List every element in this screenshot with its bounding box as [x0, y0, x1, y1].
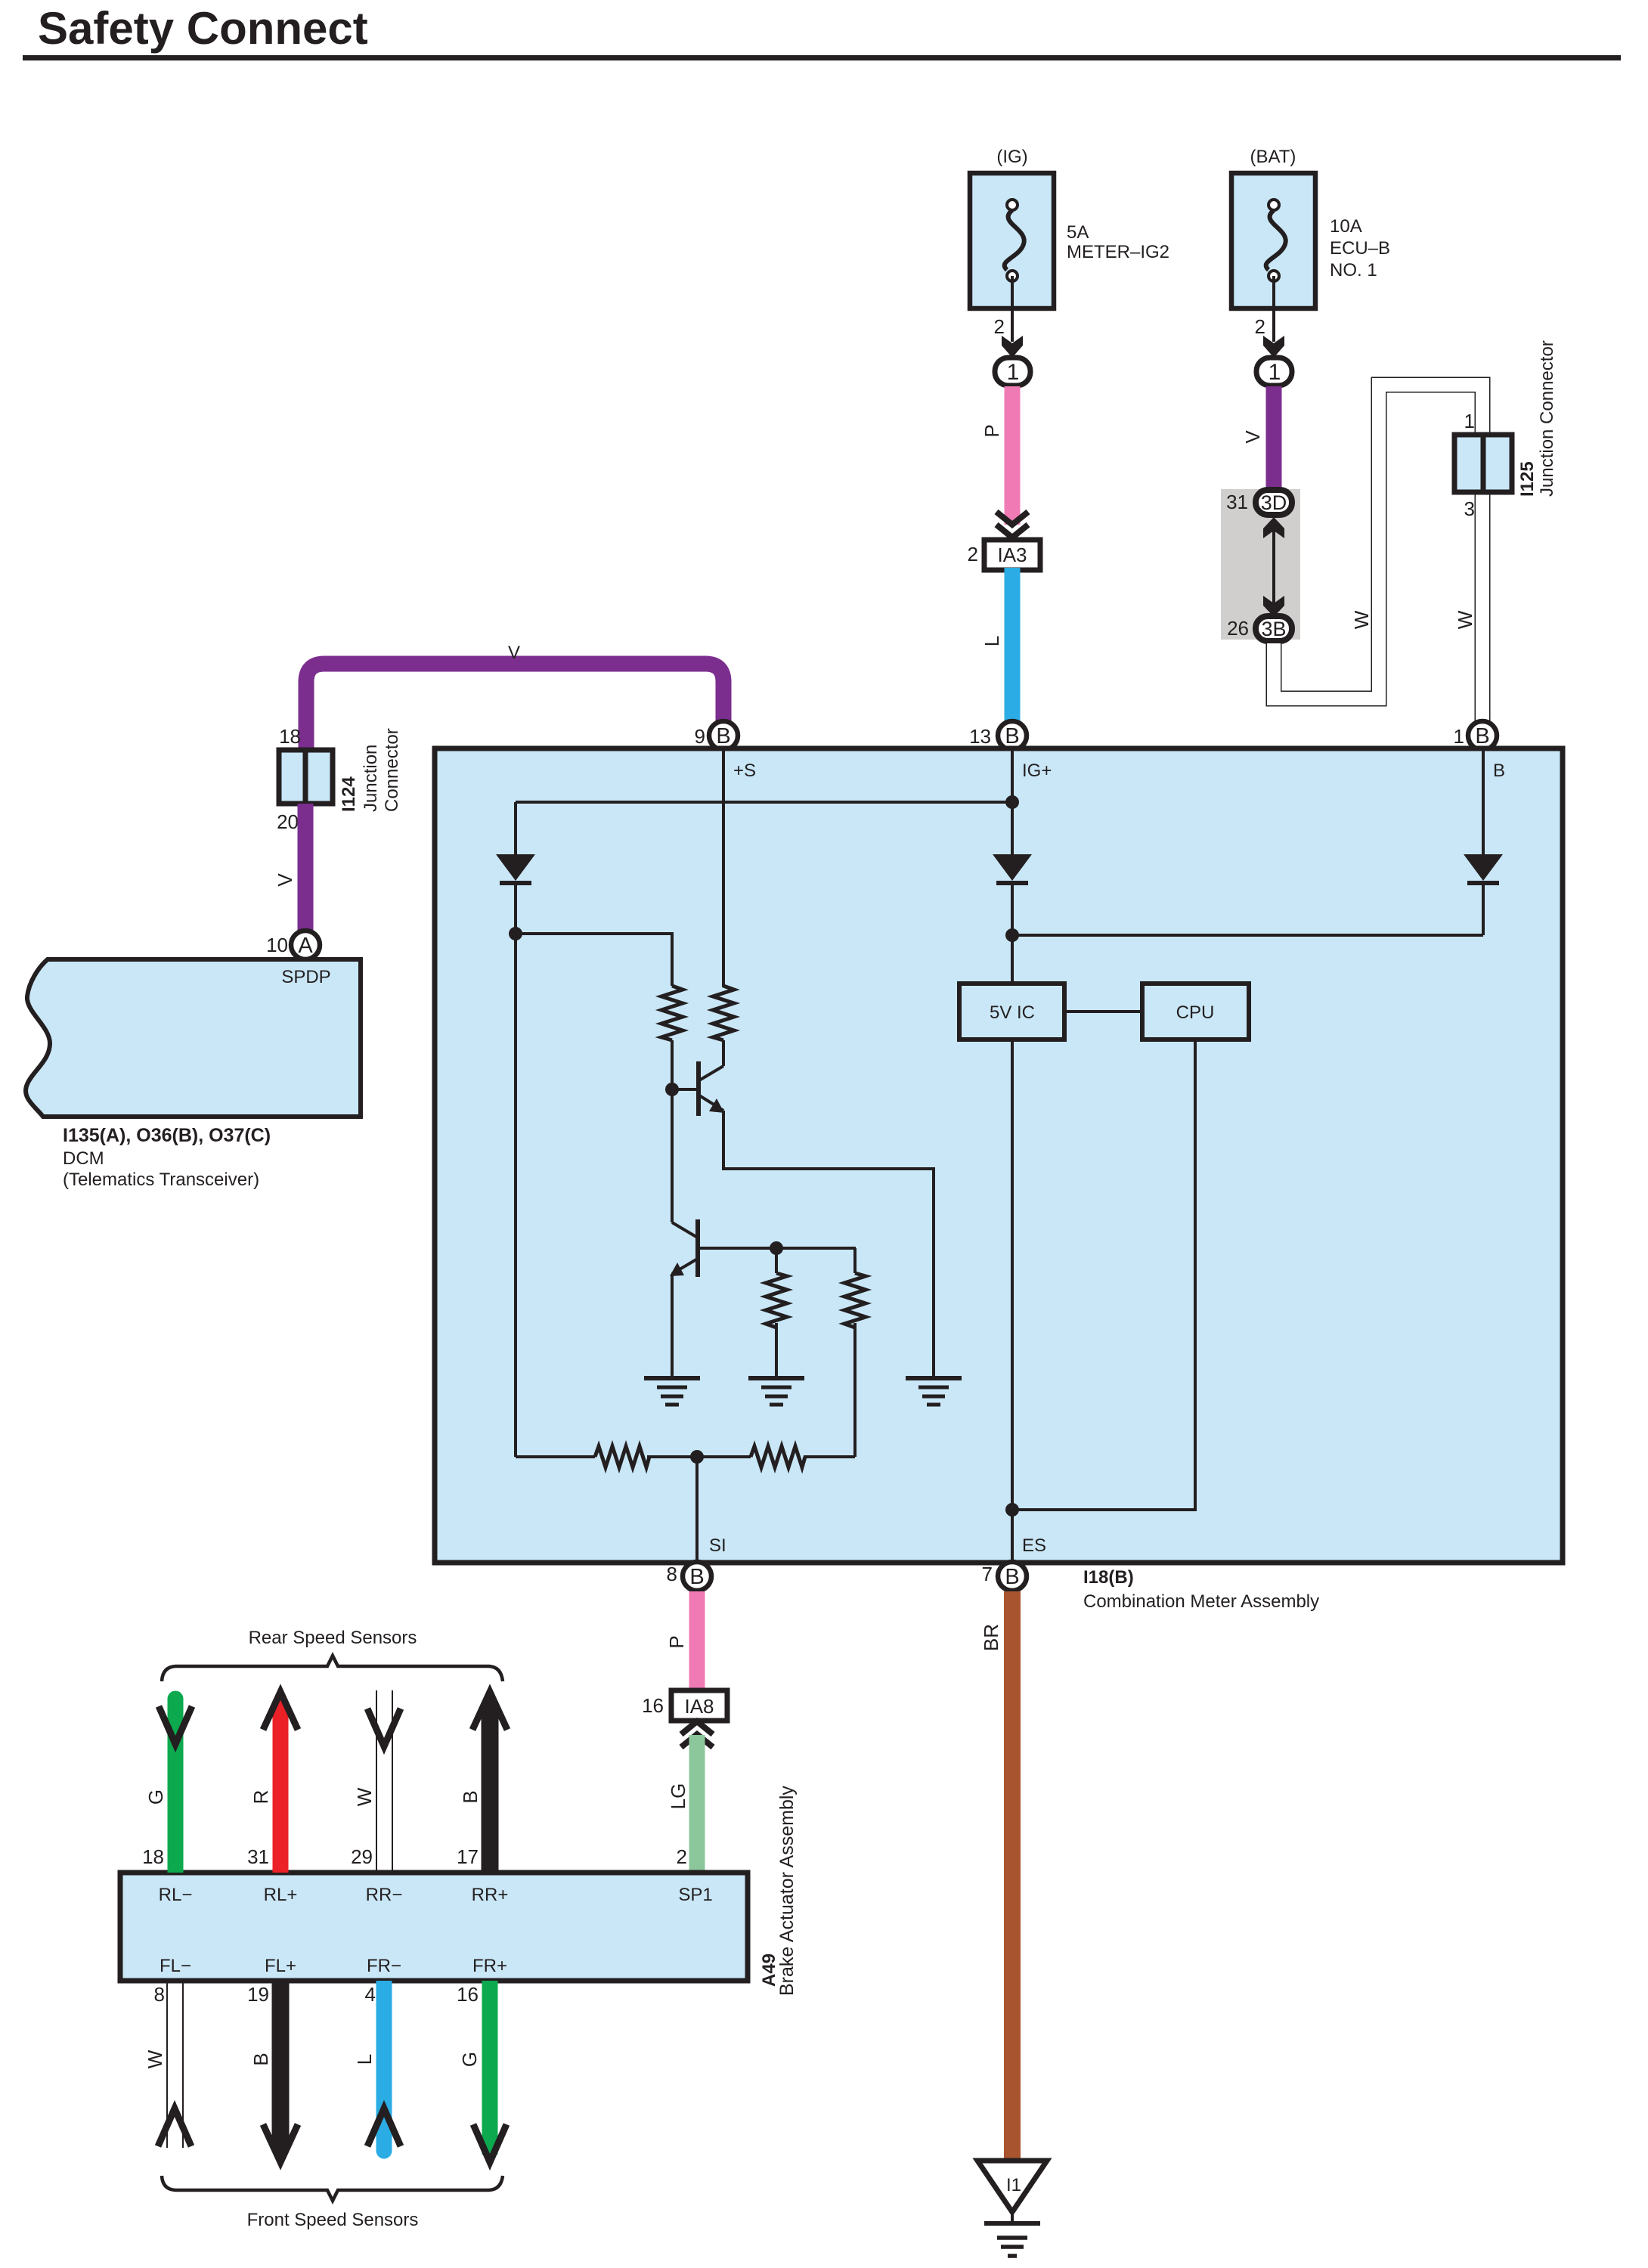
- junction connector I124: [277, 725, 402, 833]
- transistor Q1: [672, 1040, 724, 1116]
- svg-text:(IG): (IG): [996, 147, 1027, 167]
- fuse 10A ECU-B NO.1: [1231, 147, 1390, 308]
- svg-text:1: 1: [1454, 725, 1464, 748]
- svg-text:ES: ES: [1022, 1535, 1046, 1556]
- node dot ES: [1005, 1503, 1019, 1517]
- DCM caption: [63, 1125, 271, 1190]
- svg-text:R: R: [249, 1790, 272, 1805]
- svg-text:L: L: [980, 636, 1003, 646]
- svg-text:4: 4: [365, 1983, 376, 2006]
- wire 5V IC to CPU: [1064, 1010, 1142, 1013]
- svg-text:P: P: [980, 424, 1003, 437]
- connector IA8: [642, 1690, 727, 1721]
- terminal 10 A: [266, 931, 320, 959]
- transistor Q2: [670, 1089, 856, 1378]
- resistor R6: [751, 1446, 805, 1467]
- svg-text:B: B: [716, 724, 730, 748]
- wire W (RR-): [367, 1690, 401, 1873]
- svg-text:DCM: DCM: [63, 1148, 104, 1169]
- svg-text:3B: 3B: [1261, 618, 1286, 640]
- svg-text:RR−: RR−: [366, 1885, 403, 1905]
- svg-text:31: 31: [247, 1845, 269, 1868]
- junction connector I125: [1454, 340, 1557, 520]
- node dot R3 top: [770, 1241, 783, 1255]
- terminal 13 B: [969, 721, 1027, 750]
- connector IA3: [968, 540, 1040, 570]
- svg-text:Rear Speed Sensors: Rear Speed Sensors: [249, 1628, 417, 1648]
- diode D1: [496, 802, 535, 934]
- ground I1: [977, 2161, 1047, 2256]
- svg-text:LG: LG: [667, 1783, 689, 1810]
- svg-text:A: A: [298, 934, 313, 958]
- svg-text:NO. 1: NO. 1: [1330, 260, 1377, 280]
- wire R5 to R6: [647, 1455, 751, 1458]
- svg-text:5V IC: 5V IC: [990, 1002, 1035, 1023]
- fuse 5A METER-IG2: [970, 147, 1169, 308]
- resistor R1: [661, 986, 683, 1040]
- svg-text:IA3: IA3: [997, 544, 1027, 566]
- svg-text:I124: I124: [339, 776, 359, 812]
- CPU block: [1142, 984, 1249, 1039]
- connector oval 1 (BAT): [1256, 358, 1292, 386]
- svg-text:2: 2: [968, 543, 978, 565]
- node dot SI: [690, 1450, 704, 1464]
- wire LG light green: [689, 1735, 705, 1873]
- wire Q1 emitter elbow: [723, 1111, 934, 1378]
- svg-text:+S: +S: [733, 761, 756, 781]
- svg-text:V: V: [274, 873, 296, 887]
- svg-text:5A: 5A: [1067, 222, 1089, 243]
- wire R (RL+): [263, 1692, 298, 1873]
- svg-text:METER–IG2: METER–IG2: [1067, 242, 1169, 262]
- terminal 1 B: [1454, 721, 1497, 750]
- svg-text:Junction Connector: Junction Connector: [1537, 340, 1557, 497]
- wire G (RL-): [159, 1691, 192, 1873]
- resistor R2: [713, 986, 734, 1040]
- wire top horizontal to IG+: [516, 801, 1012, 804]
- svg-text:3D: 3D: [1261, 491, 1287, 514]
- svg-text:B: B: [689, 1565, 704, 1589]
- svg-text:18: 18: [142, 1845, 164, 1868]
- wire L blue: [1005, 568, 1021, 727]
- wire D1 to R1: [516, 934, 672, 986]
- rear speed sensors brace: [162, 1656, 503, 1681]
- svg-text:B: B: [1005, 1565, 1019, 1589]
- svg-text:G: G: [458, 2052, 481, 2067]
- svg-text:IG+: IG+: [1022, 761, 1052, 781]
- svg-text:V: V: [508, 643, 520, 663]
- svg-text:RL−: RL−: [159, 1885, 193, 1905]
- wire B (FL+): [263, 1981, 298, 2162]
- svg-text:FL−: FL−: [160, 1956, 191, 1976]
- svg-text:SPDP: SPDP: [281, 967, 330, 987]
- wire B (RR+): [472, 1692, 507, 1873]
- wire SI vertical: [695, 1457, 699, 1560]
- wire R1 to base node: [671, 1040, 674, 1089]
- svg-text:16: 16: [457, 1983, 479, 2006]
- wire bottom chain left: [516, 1455, 595, 1458]
- ground G3: [906, 1378, 962, 1405]
- connector oval 1 (IG): [995, 358, 1030, 386]
- svg-text:2: 2: [994, 315, 1005, 338]
- svg-text:SI: SI: [709, 1535, 726, 1556]
- wire D2 to D3 horizontal: [1012, 934, 1483, 937]
- wire fuse IG output pin 2: [994, 276, 1023, 358]
- shield gray block: [1221, 489, 1300, 640]
- svg-text:I125: I125: [1517, 461, 1538, 497]
- wire W from I125 pin 3 to terminal 1: [1475, 490, 1491, 726]
- double chevron out of IA8: [681, 1721, 713, 1747]
- front speed sensors brace: [162, 2176, 503, 2201]
- svg-text:20: 20: [277, 810, 299, 833]
- svg-text:13: 13: [969, 725, 991, 748]
- svg-text:3: 3: [1464, 497, 1475, 520]
- svg-text:B: B: [1493, 761, 1505, 781]
- wire +S vertical: [722, 749, 725, 987]
- terminal 7 B: [982, 1562, 1027, 1591]
- svg-text:BR: BR: [980, 1624, 1002, 1651]
- svg-text:10A: 10A: [1330, 216, 1362, 237]
- svg-text:(Telematics Transceiver): (Telematics Transceiver): [63, 1170, 259, 1190]
- svg-text:1: 1: [1464, 410, 1475, 432]
- svg-text:1: 1: [1269, 360, 1281, 385]
- svg-text:B: B: [1005, 724, 1019, 748]
- svg-text:Front Speed Sensors: Front Speed Sensors: [247, 2210, 419, 2230]
- wire IG+ vertical upper: [1011, 749, 1014, 855]
- brake actuator assembly box: [120, 1873, 748, 1981]
- twisted pair double arrow: [1263, 517, 1284, 617]
- svg-text:I135(A), O36(B), O37(C): I135(A), O36(B), O37(C): [63, 1125, 271, 1146]
- wire V purple: [1266, 386, 1282, 490]
- svg-text:9: 9: [695, 725, 705, 748]
- caption I18(B) Combination Meter Assembly: [1083, 1567, 1319, 1612]
- resistor R5: [595, 1446, 649, 1467]
- wire V purple elbow to +S: [306, 664, 723, 750]
- wire R6 to R4: [804, 1455, 855, 1458]
- svg-text:B: B: [1475, 724, 1489, 748]
- svg-text:CPU: CPU: [1176, 1002, 1215, 1023]
- svg-text:Brake Actuator Assembly: Brake Actuator Assembly: [776, 1786, 798, 1996]
- svg-text:I1: I1: [1006, 2175, 1021, 2195]
- svg-text:RR+: RR+: [472, 1885, 509, 1905]
- diode D3: [1464, 854, 1503, 935]
- wire P pink: [1005, 386, 1021, 525]
- svg-text:W: W: [353, 1787, 376, 1806]
- resistor R3: [766, 1248, 787, 1378]
- svg-text:2: 2: [1255, 315, 1265, 338]
- DCM box (torn edge): [26, 959, 361, 1117]
- node dot IG+ top: [1005, 795, 1019, 809]
- wire BR brown: [1004, 1591, 1021, 2161]
- caption A49 Brake Actuator Assembly: [759, 1786, 798, 1996]
- svg-text:8: 8: [667, 1563, 677, 1585]
- svg-text:SP1: SP1: [678, 1885, 712, 1905]
- svg-text:7: 7: [982, 1563, 993, 1585]
- resistor R4: [844, 1248, 866, 1457]
- combination meter assembly box: [435, 748, 1563, 1563]
- wire P pink (SI): [689, 1591, 705, 1691]
- double chevron into IA3: [996, 512, 1028, 538]
- svg-text:P: P: [665, 1635, 688, 1648]
- terminal 9 B: [695, 721, 738, 750]
- svg-text:10: 10: [266, 934, 288, 956]
- svg-text:(BAT): (BAT): [1250, 147, 1296, 167]
- svg-text:W: W: [1350, 610, 1373, 629]
- svg-text:26: 26: [1227, 617, 1249, 640]
- svg-text:19: 19: [247, 1983, 269, 2006]
- wire left vertical long: [514, 934, 517, 1457]
- svg-text:Combination Meter Assembly: Combination Meter Assembly: [1083, 1591, 1319, 1612]
- svg-text:B: B: [459, 1790, 482, 1803]
- wire G (FR+): [473, 1981, 506, 2162]
- wire CPU to ES: [1012, 1039, 1195, 1510]
- svg-text:RL+: RL+: [264, 1885, 298, 1905]
- wire V purple to DCM: [298, 804, 314, 932]
- svg-text:FL+: FL+: [265, 1956, 296, 1976]
- svg-text:Junction: Junction: [361, 745, 381, 812]
- wire L (FR-): [367, 1981, 401, 2159]
- svg-text:FR+: FR+: [472, 1956, 507, 1976]
- svg-text:B: B: [249, 2053, 272, 2065]
- svg-text:W: W: [1454, 610, 1476, 629]
- node dot Q1 base: [665, 1083, 679, 1096]
- connector oval 3B: [1227, 616, 1292, 641]
- wire B vertical: [1482, 749, 1485, 855]
- svg-text:G: G: [144, 1789, 167, 1805]
- title underline: [23, 55, 1621, 60]
- svg-text:FR−: FR−: [367, 1956, 401, 1976]
- svg-text:1: 1: [1007, 360, 1020, 385]
- svg-text:31: 31: [1226, 491, 1248, 513]
- node dot D2 out: [1005, 928, 1019, 942]
- wire W (FL-): [158, 1981, 191, 2148]
- svg-text:Safety Connect: Safety Connect: [38, 3, 368, 54]
- svg-text:18: 18: [279, 725, 301, 748]
- diode D2: [993, 854, 1032, 984]
- node dot D1 out: [509, 927, 522, 940]
- svg-text:V: V: [1241, 430, 1264, 444]
- svg-text:ECU–B: ECU–B: [1330, 238, 1390, 259]
- svg-text:8: 8: [154, 1983, 165, 2006]
- svg-text:I18(B): I18(B): [1083, 1567, 1134, 1588]
- svg-text:16: 16: [642, 1694, 664, 1717]
- ground G1: [644, 1378, 700, 1405]
- ground G2: [748, 1378, 804, 1405]
- svg-text:L: L: [353, 2054, 376, 2065]
- connector oval 3D: [1226, 490, 1292, 515]
- svg-text:IA8: IA8: [684, 1695, 714, 1718]
- wire ES vertical: [1011, 1039, 1014, 1560]
- wire W from 3B to I125 pin 1: [1274, 385, 1482, 699]
- svg-text:W: W: [144, 2050, 166, 2068]
- terminal 8 B: [667, 1562, 711, 1591]
- svg-text:17: 17: [457, 1845, 479, 1868]
- svg-text:2: 2: [677, 1845, 687, 1868]
- svg-text:29: 29: [351, 1845, 373, 1868]
- svg-text:Connector: Connector: [382, 728, 402, 812]
- wire fuse BAT output pin 2: [1255, 276, 1284, 358]
- 5V IC block: [959, 984, 1064, 1039]
